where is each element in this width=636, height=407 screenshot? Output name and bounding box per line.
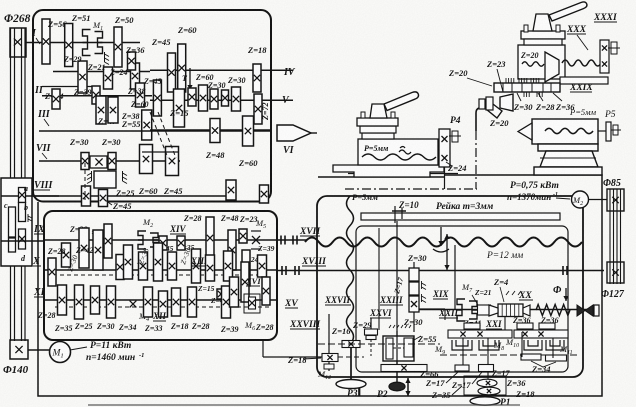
handwheel P2 [396, 361, 398, 383]
shaft IX into abcd box [1, 240, 44, 242]
shaft V [150, 99, 293, 101]
dash link Z18 [338, 356, 364, 358]
wire XXII branch [419, 308, 445, 310]
coupling M6 [244, 294, 260, 313]
gear Z=21 on II [104, 67, 113, 89]
gear Z=50 on I [114, 27, 122, 67]
gear on IX mid [159, 236, 167, 250]
pulley F85 [607, 189, 624, 211]
gear Z=34 bars [521, 354, 541, 360]
gear Z=28 on IX [104, 224, 112, 258]
gear column P4 [439, 129, 450, 167]
upper post handle [549, 2, 587, 21]
bolts [361, 112, 365, 118]
speed gearbox housing [33, 10, 271, 202]
slider block VII-VIII [94, 171, 116, 188]
shaft VIII into abcd box [1, 195, 59, 197]
plate under upper post [560, 77, 608, 84]
wire pulley to M1 [28, 349, 49, 351]
apron inner box [356, 226, 568, 372]
gear Z=39 on III [92, 86, 100, 104]
gear Z=60 on VI [243, 116, 254, 146]
belt right [609, 189, 611, 284]
gear XIII [192, 249, 201, 283]
gear Z=28 second on IX [206, 217, 214, 259]
feed gearbox housing [44, 211, 277, 340]
gear Z=60 tall on V [174, 89, 185, 127]
arrows at leadscrew [440, 227, 442, 246]
paper texture [0, 0, 1, 1]
screw icon top right [611, 42, 617, 54]
gear c [9, 207, 16, 237]
apron centerline [318, 343, 440, 345]
ground hatch on II [105, 52, 110, 65]
spring on XX [536, 305, 570, 316]
bed line under carriage [318, 176, 444, 178]
gear Z=34 on XI [107, 286, 116, 318]
gear Z=28 right on XI [262, 277, 270, 305]
worm Z=4 [498, 304, 523, 317]
feed arrows P2 [407, 378, 409, 396]
hatch over housing [389, 325, 411, 328]
shaft XX [419, 309, 590, 311]
spindle VI [39, 130, 150, 132]
tailstock pedestal [538, 144, 598, 151]
pulley top on shaft I [10, 28, 26, 57]
gear bar A [448, 330, 512, 338]
small bars above [464, 323, 480, 329]
worm gear box Z=55 [383, 336, 414, 361]
gear Z=18 on IV [253, 64, 261, 92]
pulley bottom dia F140 [10, 340, 28, 359]
motor M2 [572, 191, 589, 208]
gear Z=48 on VI [210, 119, 220, 143]
rack [361, 213, 560, 220]
top slide screw wavy [562, 60, 601, 66]
gear Z=39 small on X [242, 250, 250, 286]
clutch bracket M11 [524, 340, 542, 350]
cross slide block [358, 139, 438, 165]
leadscrew XVII wavy [305, 238, 582, 247]
gear bar B [514, 330, 568, 338]
gear Z=42 on X [79, 228, 89, 268]
clutch bracket M9 [452, 340, 472, 350]
shaft XVIII stub [277, 270, 604, 272]
belt I-to-motor [10, 28, 12, 341]
gear Z=18 on XI [172, 288, 181, 316]
pinion Z=10 [392, 210, 406, 212]
screw icon P4 [452, 131, 458, 142]
shaft VIII [33, 195, 232, 197]
gear c2 [9, 238, 16, 252]
gear Z=56 on I [42, 19, 50, 64]
coupling M4 [130, 301, 137, 308]
screw wavy inside body [522, 62, 544, 66]
shaft XIX vertical [454, 245, 456, 310]
gear b [19, 203, 26, 222]
gear Z=45 on V [153, 80, 161, 116]
gear Z=21 on XX [478, 305, 491, 315]
gear d [19, 229, 26, 249]
bracket right [600, 40, 609, 73]
gear VIII far right [260, 185, 269, 203]
gear Z=60 on IV [178, 44, 186, 92]
gear Z=34g on III [52, 89, 60, 109]
cross feed screw wavy vertical [347, 196, 354, 344]
dashed drive III-VII [150, 112, 168, 158]
handwheel P1 [470, 397, 500, 405]
gear Z=28 on X [48, 258, 56, 286]
gear Z=72 on V [254, 94, 262, 124]
shaft XI [44, 299, 277, 301]
gear Z=30 on V [210, 89, 218, 109]
gear Z=40 [217, 289, 225, 299]
outer frame [38, 175, 602, 396]
dashed vertical at slider [84, 163, 86, 200]
upper post plates [521, 31, 565, 39]
shaft XXVI vertical [378, 228, 380, 330]
shaft I [26, 42, 140, 44]
gear Z=24 on X [224, 251, 233, 281]
shaft II [53, 71, 150, 73]
shaft XVII stub [277, 239, 307, 241]
gear Z=51 on I [65, 24, 73, 67]
cross slide linkage dash-dot [345, 188, 477, 190]
gear Z=29 cluster [370, 318, 372, 339]
clutch M7 [457, 299, 465, 321]
gear Z=35 on XI [58, 285, 67, 315]
gear Z=23 on IX [239, 229, 247, 243]
shaft IV [150, 69, 293, 71]
ground hatch right of block [123, 171, 128, 184]
gear Z=38 on III [136, 83, 145, 107]
cross screw wavy [362, 154, 436, 160]
gear Z=24 on II [131, 63, 140, 89]
end bracket XX [594, 305, 599, 316]
shaft VII [39, 160, 180, 162]
cross screw shaft XXIX [494, 83, 560, 92]
bearing blocks [479, 99, 485, 109]
vertical shafts apron [462, 338, 464, 368]
gear Z=25 on XI [75, 285, 84, 319]
bevel pair Z=20 Z=23 [500, 94, 513, 111]
gear cluster X 4 [168, 252, 177, 280]
gear Z=55 on III [108, 97, 118, 123]
gear cluster X 2 [139, 252, 148, 280]
slide plates [362, 133, 394, 139]
gear Z=30 on VII [81, 153, 89, 170]
shaft XXVIII vertical [328, 314, 330, 371]
gear pair VII-VIII [140, 145, 153, 174]
gear Z=30 second on V [232, 87, 241, 111]
gear mid III [142, 110, 152, 140]
shaft IX [44, 239, 277, 241]
clutch bracket M8 [479, 340, 499, 350]
dashed gear box [464, 376, 506, 395]
carriage saddle [333, 165, 444, 177]
gear Z=60 on V [199, 85, 208, 111]
overload bowtie [577, 305, 593, 316]
shaft III left [42, 95, 152, 97]
spindle nose cone [277, 125, 311, 141]
bed top line under saddle [348, 173, 458, 175]
gear Z=18 on XXVIII [322, 354, 338, 362]
tailstock screw wavy [545, 128, 593, 133]
gear Z=29 on II [78, 61, 87, 93]
bevel gear in body [545, 52, 559, 82]
apron box [317, 196, 583, 377]
gear Z=39 on XI [222, 286, 231, 318]
gear Z=30 on X [93, 230, 103, 270]
handwheel P3 [350, 347, 352, 380]
clutch M1 on I [83, 30, 91, 56]
gear bars lower-left [455, 365, 469, 371]
pulley F127 [607, 262, 624, 283]
handwheel shaft vertical [396, 221, 398, 383]
coupling on VII [90, 156, 107, 168]
gear Z=45 on VIII [99, 190, 108, 207]
coupling M12 [324, 364, 334, 369]
gear Z=47 on III [96, 96, 106, 124]
coupling M2 on IX [138, 231, 146, 249]
motor M1 [50, 342, 71, 363]
upper post head [533, 14, 552, 31]
gear Z=16 [342, 341, 360, 348]
gear cluster X 1 [116, 255, 124, 280]
tailstock center cone [518, 123, 532, 140]
gear Z=33 on XI [144, 287, 153, 317]
gear VIII right [226, 180, 236, 200]
gear a [19, 188, 26, 203]
shaft X [44, 269, 277, 271]
gear Z=30 on XI [91, 286, 100, 314]
tool post handle [384, 92, 419, 111]
gear small V [222, 90, 229, 106]
gear Z=15 on X [206, 255, 215, 281]
upper tool post body [518, 45, 565, 79]
gear M3 [124, 245, 133, 279]
gear XVI cluster [230, 277, 239, 307]
gear Z=28 on XI [188, 287, 197, 317]
gear cluster X 3 [154, 243, 163, 281]
wire M2 to pulley [588, 199, 607, 201]
gear Z=15 on V [188, 88, 196, 106]
scan artifact line bottom [88, 404, 520, 406]
tool post head [370, 104, 387, 118]
gear Z=30 second on VII [108, 153, 116, 170]
shaft XXVIII under feed box [262, 340, 264, 357]
gear Z=66 rack pinion bar [381, 365, 427, 372]
tailstock body [532, 119, 598, 144]
gear XII [159, 291, 168, 317]
ground hatch left of block [87, 171, 92, 184]
coupling M5 on IX [252, 236, 260, 244]
gear right X [258, 255, 267, 277]
ground hatch abcd [28, 214, 32, 222]
gear Z=48 on IX [228, 230, 236, 270]
tailstock handwheel P5 [598, 130, 608, 132]
gear Z=45 on IV [168, 53, 176, 92]
gear on VIII left [82, 186, 91, 206]
gear Z=36 on II [128, 52, 136, 70]
change gear box abcd [1, 178, 32, 266]
